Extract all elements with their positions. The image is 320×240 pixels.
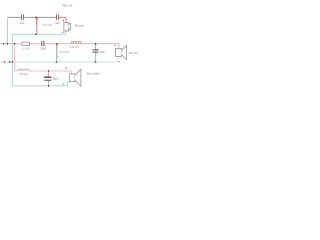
svg-text:0.33 mH: 0.33 mH xyxy=(69,46,79,49)
current speck near woofer teal xyxy=(63,83,64,84)
junction mid rail / C4 top xyxy=(95,43,97,45)
junction bottom rail / C5 bottom xyxy=(48,85,50,87)
resistor R1 1.1 ohm (mid rail series box) xyxy=(22,42,30,45)
capacitor C2 4uF (top rail) xyxy=(57,15,59,20)
wire: teal return A horizontal y34.2 xyxy=(12,33,66,35)
svg-text:8Ω woofer: 8Ω woofer xyxy=(87,71,100,75)
junction mid rail / L2 top xyxy=(56,43,58,45)
capacitor C1 4uF (top rail) xyxy=(22,15,24,20)
wire: woofer line y71 xyxy=(29,71,71,74)
capacitor C3 20uF (mid rail series) xyxy=(42,41,44,46)
svg-text:8Ω twtr: 8Ω twtr xyxy=(75,24,84,28)
svg-text:4µF: 4µF xyxy=(55,21,60,25)
junction top rail / L1 top xyxy=(35,17,37,19)
junction teal return B / L2 bottom xyxy=(56,61,58,63)
svg-text:1.1 Ω: 1.1 Ω xyxy=(23,46,30,50)
junction teal return B / C4 bottom xyxy=(95,61,97,63)
inductor L1 0.7mH (vertical shunt at x38.4) xyxy=(36,17,38,34)
woofer speaker (bottom center) xyxy=(69,69,81,86)
junction mid rail / woofer branch xyxy=(14,43,16,45)
wire: teal vertical x12.35 xyxy=(11,34,13,86)
svg-text:8µF: 8µF xyxy=(100,50,105,54)
junction source post on mid rail xyxy=(3,43,5,45)
junction teal return B post xyxy=(9,61,11,63)
current speck near tweeter top xyxy=(63,20,64,21)
junction source post on teal return B xyxy=(4,61,6,63)
current speck near tweeter bottom xyxy=(62,32,63,33)
junction teal return A / L1 bottom xyxy=(35,33,37,35)
current speck near mid speaker xyxy=(114,45,115,46)
current speck on teal near mid speaker xyxy=(118,61,119,62)
junction mid rail / left red vertical xyxy=(7,43,9,45)
svg-text:20µF: 20µF xyxy=(40,46,47,50)
inductor L4 woofer series coil xyxy=(17,69,29,71)
current speck near woofer feed xyxy=(66,67,67,68)
svg-text:30µF: 30µF xyxy=(52,77,59,81)
capacitor C5 woofer shunt xyxy=(48,71,50,77)
wire: woofer branch vertical x14.55 xyxy=(15,44,18,71)
inductor L3 series coil on mid rail xyxy=(71,42,81,44)
wire: tweeter bottom teal lead xyxy=(65,31,67,34)
source terminal marks left xyxy=(1,43,2,45)
wire: top rail red y17.4 xyxy=(7,17,66,22)
wire: mid rail pink y43.8 xyxy=(4,44,119,49)
junction woofer line / C5 top xyxy=(48,70,50,72)
tweeter speaker (top right) xyxy=(64,22,71,31)
wire: teal bottom rail y85.9 xyxy=(12,82,69,86)
junction teal return B / teal vertical xyxy=(12,61,14,63)
wire: teal mid-speaker bottom lead xyxy=(116,56,118,62)
svg-text:4µF: 4µF xyxy=(20,21,25,25)
wire: left red vertical x7.4 xyxy=(6,17,8,43)
wire: teal return B y62 xyxy=(4,61,117,63)
svg-text:0.3 mH: 0.3 mH xyxy=(60,50,69,54)
mid-range speaker (right) xyxy=(116,45,127,59)
inductor L2 shunt coil at x56.2 xyxy=(56,44,57,59)
capacitor C4 shunt on mid rail at x95.6 xyxy=(95,44,97,50)
svg-text:10 mH: 10 mH xyxy=(19,72,27,76)
svg-text:4Ω mid: 4Ω mid xyxy=(129,51,138,55)
svg-text:0.7 mH: 0.7 mH xyxy=(43,23,52,27)
svg-text:400 mV: 400 mV xyxy=(62,4,72,8)
